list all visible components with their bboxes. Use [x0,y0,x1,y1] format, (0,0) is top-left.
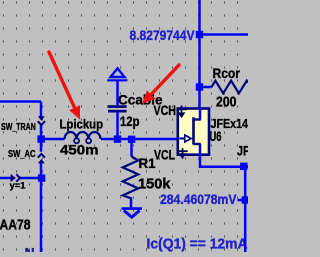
wire power symbol stem to Ccable [116,80,119,106]
transistor U6 JFET symbol internals [192,117,195,144]
junction node at Rcor [196,83,203,90]
svg-text:N: N [25,245,35,253]
wire inductor right to JFET gate [101,138,178,141]
net flag VCH [176,106,186,113]
svg-text:284.46078mV: 284.46078mV [160,192,237,207]
resistor Rcor zigzag [212,81,249,94]
wire JFET drain vertical (blue) [199,108,202,120]
wire left vertical net x=41 [40,102,43,253]
svg-text:VCL: VCL [154,147,175,162]
wire JFET source down and right to output node [199,144,248,167]
port marker SW_TRAN (down) [38,116,45,120]
op JFET body U6 [178,109,209,155]
port marker y=1 (right) [11,174,16,182]
svg-text:VCH: VCH [154,103,177,118]
svg-text:SW_AC: SW_AC [8,148,36,160]
wire lower-left horizontal y=178 [0,177,39,180]
port marker SW_AC (up) [38,154,45,158]
junction node at y=1 wire [38,174,45,181]
svg-text:200: 200 [216,94,237,110]
svg-text:Lpickup: Lpickup [60,116,104,131]
svg-text:AA78: AA78 [0,217,31,233]
junction node at probe stub [242,196,249,203]
capacitor Ccable plates [108,105,127,108]
wire R1 bottom to ground [130,198,133,209]
svg-text:JF: JF [237,143,248,158]
svg-text:Ic(Q1) == 12mA: Ic(Q1) == 12mA [147,236,249,252]
wire top vertical net x=199.5 [198,0,201,108]
svg-text:y=1: y=1 [10,180,26,190]
ground below R1 [122,207,143,210]
junction node at SW_TRAN/SW_AC [37,135,44,142]
red annotation arrow 2 to Ccable [151,65,179,95]
inductor Lpickup coil [65,132,101,139]
junction node at output corner [240,163,247,170]
wire top horizontal y=34.5 [200,33,249,36]
wire top-left horizontal into left vertical net [0,100,41,103]
svg-text:450m: 450m [60,142,99,158]
wire node down to R1 top [130,139,133,157]
svg-text:U6: U6 [210,129,222,144]
wire right vertical net down from output node [244,167,247,252]
wire main horizontal node to inductor [40,138,65,141]
resistor R1 zigzag [123,157,139,199]
svg-text:8.8279744V: 8.8279744V [130,28,195,43]
red annotation arrow 1 to Lpickup [49,52,75,108]
svg-text:12p: 12p [120,113,140,129]
svg-text:Rcor: Rcor [213,65,241,81]
wire probe stub at 284mV [238,199,246,202]
svg-text:150k: 150k [138,177,171,193]
power rail symbol above Ccable [111,68,125,77]
junction node at R1 top [128,136,135,143]
wire Rcor left lead [200,86,212,89]
net flag VCL [177,148,187,153]
wire Ccable bottom to main node [116,112,119,139]
junction node at Ccable bottom [114,135,121,142]
svg-text:SW_TRAN: SW_TRAN [1,121,36,133]
junction node at 8.8279744V [196,31,203,38]
